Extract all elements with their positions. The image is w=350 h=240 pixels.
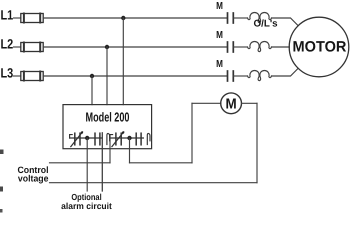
fuse F1	[21, 14, 43, 23]
control voltage bottom rail	[50, 182, 258, 184]
svg-text:M: M	[216, 1, 223, 12]
fuse F3	[21, 72, 43, 81]
node common group2	[127, 136, 131, 140]
svg-text:Model 200: Model 200	[85, 109, 129, 124]
scan artifact mark 1	[0, 150, 4, 155]
label Model 200	[85, 109, 129, 124]
svg-text:M: M	[216, 59, 223, 70]
label O/L's	[254, 19, 279, 30]
node row2/bus2	[105, 45, 109, 49]
motor circle	[289, 17, 349, 77]
wire to coil M	[192, 102, 221, 104]
label L3	[1, 65, 14, 80]
wire row1	[43, 17, 227, 19]
wire row2 to motor	[272, 46, 290, 48]
wire coil feed: common group2 down	[129, 138, 131, 163]
terminal stub top-left group2	[110, 135, 113, 138]
wire row3 to motor	[272, 68, 299, 76]
svg-text:M: M	[226, 97, 237, 113]
wire group1 baseline	[70, 137, 103, 139]
overload OL row3	[248, 70, 272, 80]
control voltage top rail	[50, 162, 111, 164]
label L1	[1, 7, 14, 22]
node row1/bus1	[121, 16, 125, 20]
terminal h group2	[147, 133, 150, 144]
relay contact group 1 (left, alarm)	[70, 131, 110, 146]
contact M row3 label	[216, 59, 223, 70]
wire group2 baseline	[110, 137, 143, 139]
terminal h group1	[107, 133, 110, 144]
wire row3 to OL	[233, 75, 247, 77]
wire row2	[43, 46, 227, 48]
svg-text:voltage: voltage	[18, 174, 49, 184]
contact M row2	[228, 42, 234, 52]
svg-text:O/L's: O/L's	[254, 19, 279, 30]
bus wire from L1 to box	[122, 18, 124, 105]
label MOTOR	[293, 38, 347, 55]
svg-text:L3: L3	[1, 65, 14, 80]
alarm wire 2	[101, 133, 103, 191]
wire L1 lead dash	[14, 17, 21, 19]
contact M row1	[228, 13, 234, 23]
scan artifact mark 2	[0, 187, 3, 192]
wire coil feed horizontal	[130, 162, 193, 164]
wire coil feed riser	[191, 103, 193, 163]
relay contact group 2 (right, control)	[110, 131, 150, 146]
svg-text:M: M	[216, 30, 223, 41]
wire row2 to OL	[233, 46, 247, 48]
bus wire from L3 to box	[91, 76, 93, 105]
wire L3 lead dash	[14, 75, 21, 77]
overload OL row1	[248, 12, 272, 22]
scan artifact mark 3	[0, 209, 3, 213]
NC contact bars group1	[74, 133, 76, 145]
node common group1	[85, 136, 89, 140]
wire row1 to motor	[272, 18, 299, 26]
box Model 200	[63, 105, 152, 149]
svg-text:alarm circuit: alarm circuit	[61, 201, 112, 211]
wire row3	[43, 75, 227, 77]
wire L2 lead dash	[14, 46, 21, 48]
label M coil	[226, 97, 237, 113]
contact M row1 label	[216, 1, 223, 12]
terminal stub top-left group1	[70, 135, 73, 138]
svg-text:L1: L1	[1, 7, 14, 22]
NC contact bars group2	[115, 133, 117, 145]
NO contact bars group1	[94, 133, 96, 145]
wire coil return riser	[256, 103, 258, 182]
wire row1 to OL	[233, 17, 247, 19]
contact M row3	[228, 71, 234, 81]
wire from coil M right	[242, 102, 258, 104]
label Optional alarm circuit	[61, 192, 112, 211]
label Control voltage	[17, 165, 48, 184]
coil M circle	[221, 93, 242, 114]
svg-text:L2: L2	[1, 36, 14, 51]
bus wire from L2 to box	[106, 47, 108, 105]
NC slash group1	[71, 132, 83, 147]
node row3/bus3	[90, 74, 94, 78]
wire riser group2-left to control rail	[109, 138, 111, 163]
NC slash group2	[112, 132, 124, 147]
label L2	[1, 36, 14, 51]
contact M row2 label	[216, 30, 223, 41]
alarm wire 1	[86, 138, 88, 191]
svg-text:MOTOR: MOTOR	[293, 38, 347, 55]
NO contact bars group2	[135, 133, 137, 145]
overload OL row2	[248, 41, 272, 51]
fuse F2	[21, 43, 43, 52]
